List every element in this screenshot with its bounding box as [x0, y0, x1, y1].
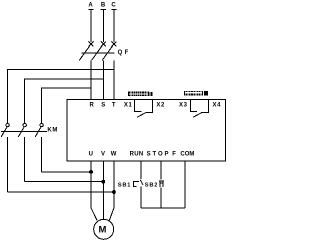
wire phase A to QF: [90, 10, 92, 42]
svg-text:S: S: [101, 103, 105, 109]
wire bypass tap phase C: [8, 70, 114, 124]
contactor KM pole 1 blade: [1, 127, 7, 137]
svg-text:STOP: STOP: [147, 152, 171, 158]
wire KM pole1 down: [41, 137, 43, 172]
svg-text:X3: X3: [179, 103, 188, 109]
contactor KM pole 2 circle: [23, 123, 26, 126]
switch K2 wire right: [202, 100, 209, 113]
svg-text:X1: X1: [124, 103, 133, 109]
breaker QF pole 3 lever: [102, 46, 113, 61]
wire button common bus: [141, 207, 185, 209]
svg-text:M: M: [98, 224, 106, 235]
wire QF pole2 to terminal S: [102, 60, 104, 99]
breaker QF pole 2 lever: [92, 46, 103, 61]
junction W: [113, 191, 116, 194]
motor M1 circle: [94, 219, 114, 239]
pushbutton SB1 label: [118, 182, 131, 188]
wire bypass bottom to V: [25, 181, 104, 183]
svg-text:W: W: [111, 152, 117, 158]
breaker QF label: [118, 50, 129, 56]
breaker QF linkage bar: [82, 52, 115, 54]
svg-text:COM: COM: [180, 152, 194, 158]
svg-text:SB2: SB2: [145, 182, 158, 188]
wire bypass bottom to U: [42, 171, 91, 173]
contactor KM linkage bar: [1, 130, 47, 132]
pushbutton SB2 label: [145, 182, 158, 188]
svg-text:V: V: [101, 152, 105, 158]
wire W to motor: [109, 161, 114, 220]
svg-text:Q: Q: [118, 50, 123, 56]
contactor KM pole 3 blade: [35, 127, 41, 137]
svg-text:M: M: [52, 127, 57, 133]
pushbutton SB1 plunger: [134, 182, 139, 187]
switch K2 blade: [193, 112, 202, 117]
supply terminal bar A: [88, 9, 93, 11]
breaker QF pole 3 contact cross: [111, 42, 116, 47]
svg-text:F: F: [125, 50, 129, 56]
svg-text:RUN: RUN: [130, 152, 144, 158]
svg-text:F: F: [172, 152, 176, 158]
wire U to motor: [91, 161, 97, 220]
supply terminal bar B: [101, 9, 106, 11]
wire bypass tap phase A: [42, 88, 91, 123]
svg-text:T: T: [112, 103, 116, 109]
svg-text:A: A: [88, 2, 93, 8]
wire KM pole3 down: [7, 137, 9, 192]
switch K1 blade: [137, 112, 146, 117]
svg-text:R: R: [90, 103, 95, 109]
wire SB1 to bus: [140, 187, 142, 209]
breaker QF pole 1 lever: [79, 46, 90, 61]
wire QF pole3 to terminal T: [113, 60, 115, 99]
contactor KM pole 3 circle: [40, 123, 43, 126]
junction V: [102, 180, 105, 183]
switch K2 between X3 X4 wire left: [190, 100, 197, 111]
pushbutton SB2 contact: [159, 181, 164, 187]
wire SB2 to bus: [160, 187, 162, 208]
switch K1 wire right: [146, 100, 153, 113]
junction U: [90, 171, 93, 174]
contactor KM label: [47, 127, 57, 133]
contactor KM pole 2 blade: [18, 127, 24, 137]
inverter U1 box: [67, 99, 225, 160]
switch K1 between X1 X2 wire left: [135, 100, 142, 111]
wire KM pole2 down: [24, 137, 26, 182]
svg-text:U: U: [89, 152, 93, 158]
breaker QF pole 1 contact cross: [89, 42, 94, 47]
wire V to motor: [102, 161, 104, 220]
svg-text:X2: X2: [156, 103, 165, 109]
wire QF pole1 to terminal R: [90, 60, 92, 99]
contactor KM pole 1 circle: [6, 123, 9, 126]
svg-text:B: B: [101, 2, 106, 8]
supply terminal bar C: [111, 9, 116, 11]
svg-text:X4: X4: [213, 103, 222, 109]
label X1-X2 function (CJK blob 1): [128, 91, 152, 96]
wire bypass tap phase B: [25, 79, 104, 123]
wire phase C to QF: [113, 10, 115, 42]
wire STOP down: [160, 161, 162, 180]
breaker QF pole 2 contact cross: [101, 42, 106, 47]
wire COM down: [184, 161, 186, 208]
svg-text:C: C: [111, 2, 116, 8]
wire RUN down: [140, 161, 142, 179]
wire bypass bottom to W: [8, 191, 114, 193]
label X3-X4 function (CJK blob 2): [184, 91, 208, 96]
pushbutton SB1 blade: [140, 180, 143, 185]
svg-text:SB1: SB1: [118, 182, 131, 188]
wire phase B to QF: [102, 10, 104, 42]
